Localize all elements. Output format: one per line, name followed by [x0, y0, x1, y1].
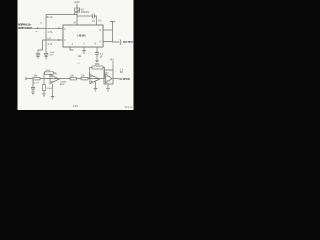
svg-text:4.7k: 4.7k	[48, 31, 53, 34]
ground below A2	[94, 81, 98, 91]
op-amp U1 IC body	[63, 25, 103, 47]
ground below A3	[106, 84, 110, 91]
svg-text:100k: 100k	[95, 64, 101, 66]
svg-text:10 mV: 10 mV	[33, 83, 40, 85]
op-amp A2 triangle	[90, 75, 100, 84]
svg-text:8Ω: 8Ω	[120, 72, 123, 74]
resistor R4 feedback above opamp A1	[45, 72, 54, 75]
wire supply drop x=77	[76, 4, 78, 26]
svg-text:OUTPUT: OUTPUT	[123, 40, 135, 44]
capacitor C7 branch to ground	[32, 80, 34, 87]
resistor R5 vertical to ground	[43, 79, 45, 85]
wire supply into A3 box	[112, 61, 114, 70]
svg-text:R1 1k: R1 1k	[47, 16, 54, 19]
ground below C3	[44, 55, 47, 59]
op-amp A3 input polarity marks	[106, 76, 107, 81]
capacitor C4 top bar on right bus	[110, 21, 115, 23]
wire vertical bus x=45.5 from supply rail to pin3 wire	[45, 15, 47, 54]
op-amp A1 input polarity marks	[51, 77, 53, 82]
wire main audio path	[27, 78, 104, 80]
schematic page (white paper)	[18, 0, 134, 110]
wire feedback legs A2	[90, 68, 105, 79]
output connector bracket	[120, 40, 121, 46]
svg-text:1µF: 1µF	[47, 38, 51, 40]
diode D1 arrow stroke	[74, 9, 80, 14]
wire supply rail horizontal y=14.5	[46, 14, 77, 16]
resistor R7 on audio path	[81, 77, 88, 80]
svg-text:SWITCHED B+: SWITCHED B+	[18, 26, 34, 30]
resistor R3 on audio path	[33, 77, 40, 80]
arrowhead into pin 2	[58, 27, 60, 29]
ground below R5	[42, 91, 46, 97]
op-amp A1 triangle	[50, 75, 59, 84]
wire pin 5 stub	[83, 47, 85, 54]
svg-text:ac: ac	[35, 31, 37, 33]
resistor R8 feedback above opamp A2	[92, 66, 103, 69]
wire pin3 corner drop	[38, 40, 43, 53]
svg-text:10µF: 10µF	[47, 88, 53, 90]
resistor R6 on audio path	[70, 77, 77, 80]
svg-text:25V: 25V	[50, 54, 54, 56]
svg-text:4-18: 4-18	[73, 105, 78, 108]
wire from C1 to IC pin 14	[94, 16, 96, 25]
wire pin 4 stub	[70, 47, 74, 50]
wire right bus x=112.5	[112, 22, 114, 43]
svg-text:+9V: +9V	[110, 60, 115, 62]
wire from B+ label to node A	[34, 27, 47, 29]
svg-text:1N4001: 1N4001	[81, 12, 90, 14]
wire feedback left leg	[44, 73, 56, 79]
ground below C2	[36, 55, 39, 58]
capacitor C3 on bus branch	[44, 53, 48, 55]
svg-text:AMP: AMP	[60, 83, 65, 86]
wire pin 8 stub	[103, 29, 113, 31]
wire pin 9 stub to output	[103, 41, 120, 44]
capacitor C2 plates	[36, 53, 40, 55]
wire input to pin 2	[46, 27, 63, 29]
arrowhead on B+ wire	[37, 27, 39, 29]
diode D1 on supply drop	[75, 8, 80, 12]
arrowhead into pin 3	[58, 39, 60, 41]
ground below A1	[51, 84, 55, 99]
svg-text:Radio: Radio	[125, 105, 135, 109]
capacitor C1 series plates	[92, 14, 94, 19]
op-amp A3 triangle inside box	[106, 74, 113, 83]
capacitor C6 plates on pin6	[95, 53, 99, 55]
ground below C6	[95, 54, 99, 63]
wire pin 6 stub	[96, 47, 98, 52]
capacitor C5 plate on pin5	[82, 50, 86, 52]
svg-text:+12V: +12V	[74, 0, 80, 4]
op-amp A2 input polarity marks	[91, 77, 93, 83]
svg-text:4.7k: 4.7k	[48, 43, 53, 46]
svg-text:LM380: LM380	[77, 33, 86, 37]
amplifier A3 box	[104, 70, 113, 84]
ground below C7	[31, 89, 35, 95]
node audio input terminal	[25, 78, 27, 80]
wire output of A3	[113, 78, 118, 80]
svg-text:NORMAL B+: NORMAL B+	[18, 23, 32, 27]
wire input to pin 3	[43, 39, 64, 41]
svg-text:TO SPKR: TO SPKR	[118, 77, 130, 81]
wire decoupling branch y=16	[77, 15, 92, 17]
